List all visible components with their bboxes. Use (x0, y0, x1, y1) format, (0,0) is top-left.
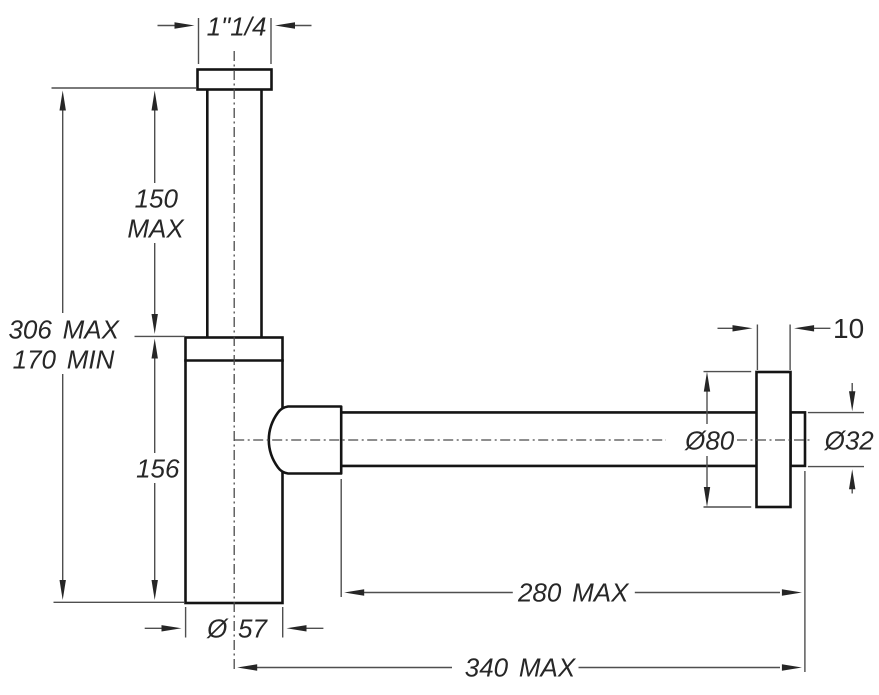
svg-text:MAX: MAX (127, 213, 185, 243)
shared top extension line (cap bottom level) (52, 87, 197, 89)
dim 156 (152, 339, 158, 601)
dim 306 MAX / 170 MIN (60, 91, 66, 601)
vertical centerline (233, 51, 235, 672)
dim 1"1/4: extension ticks (199, 18, 272, 64)
outlet bell (269, 407, 341, 474)
svg-text:Ø32: Ø32 (824, 425, 875, 455)
trap body (bottle) (186, 338, 283, 604)
dim 1"1/4: arrows (158, 22, 312, 28)
horizontal centerline (234, 439, 812, 441)
svg-text:340 MAX: 340 MAX (465, 653, 577, 683)
dim diameter 57: extension ticks (186, 607, 283, 638)
horizontal outlet tube (341, 412, 756, 466)
dim diameter 57: arrows (145, 625, 324, 631)
nut-top extension line (135, 335, 186, 337)
svg-text:306 MAX: 306 MAX (8, 314, 120, 344)
svg-text:1"1/4: 1"1/4 (207, 12, 267, 42)
dim 10: arrows (718, 325, 831, 331)
bottom extension line (54, 601, 185, 603)
svg-text:Ø 57: Ø 57 (206, 614, 268, 644)
dim 340 MAX (237, 664, 802, 670)
svg-text:280 MAX: 280 MAX (517, 577, 630, 607)
svg-text:150: 150 (135, 183, 179, 213)
dim diameter 80: extension lines (704, 372, 752, 507)
svg-text:Ø80: Ø80 (684, 425, 735, 455)
dim 10: extension ticks (757, 325, 790, 371)
svg-text:10: 10 (833, 313, 864, 344)
vertical inlet tube (207, 90, 261, 338)
dim 280 MAX: extension lines (341, 471, 805, 672)
dim diameter 32: arrows (849, 383, 855, 494)
wall flange (757, 372, 791, 507)
dim 150 MAX (152, 91, 158, 335)
dim diameter 80 (704, 372, 710, 507)
inlet cap nut (198, 70, 272, 90)
dim diameter 32: extension lines (808, 413, 864, 467)
svg-text:170 MIN: 170 MIN (13, 344, 115, 374)
svg-text:156: 156 (136, 453, 180, 483)
body nut band line (184, 359, 284, 362)
wall stub pipe (791, 412, 806, 466)
dim 280 MAX (344, 589, 802, 595)
